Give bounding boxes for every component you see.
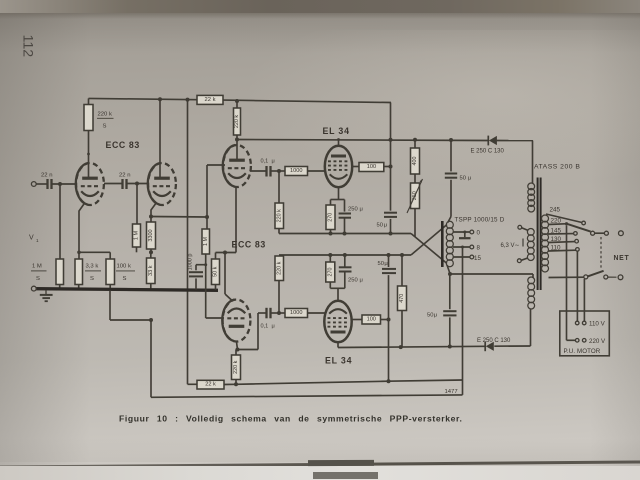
- svg-text:S: S: [36, 276, 40, 282]
- svg-text:33 k: 33 k: [148, 265, 154, 276]
- svg-text:S: S: [123, 276, 127, 282]
- svg-text:250: 250: [348, 207, 358, 213]
- svg-text:220 k: 220 k: [234, 115, 240, 128]
- svg-text:470: 470: [399, 294, 405, 303]
- svg-text:22 n: 22 n: [119, 173, 130, 179]
- svg-text:50: 50: [460, 176, 466, 182]
- svg-text:ECC 83: ECC 83: [232, 240, 266, 250]
- svg-text:22 k: 22 k: [205, 97, 216, 103]
- svg-text:EL 34: EL 34: [323, 126, 350, 136]
- svg-text:220 k: 220 k: [98, 112, 112, 118]
- svg-text:220 k: 220 k: [276, 261, 282, 274]
- svg-text:145: 145: [551, 227, 562, 234]
- svg-text:S: S: [90, 276, 94, 282]
- svg-text:400: 400: [412, 157, 418, 166]
- svg-text:100: 100: [367, 317, 376, 323]
- svg-text:50: 50: [377, 223, 383, 229]
- svg-text:μ: μ: [360, 278, 363, 284]
- svg-text:μ: μ: [434, 313, 437, 319]
- svg-text:1000: 1000: [290, 168, 302, 174]
- svg-text:22 k: 22 k: [205, 382, 216, 388]
- svg-text:130: 130: [551, 236, 562, 243]
- svg-text:μ: μ: [272, 159, 275, 165]
- svg-text:22 n: 22 n: [41, 173, 52, 179]
- svg-text:15: 15: [474, 255, 481, 262]
- svg-text:S: S: [103, 124, 107, 130]
- svg-text:220: 220: [551, 218, 562, 225]
- svg-text:50: 50: [427, 313, 433, 319]
- svg-text:220 k: 220 k: [276, 209, 282, 222]
- svg-text:μ: μ: [468, 176, 471, 182]
- svg-text:NET: NET: [614, 255, 630, 262]
- svg-text:Figuur 10 : Volledig schema: Figuur 10 : Volledig schema van de symme…: [119, 414, 463, 424]
- svg-text:6,3 V∼: 6,3 V∼: [501, 243, 520, 249]
- svg-text:ECC 83: ECC 83: [106, 140, 140, 150]
- svg-text:3300: 3300: [148, 229, 154, 241]
- svg-text:110: 110: [551, 245, 562, 252]
- svg-text:50: 50: [378, 261, 384, 267]
- svg-text:μ: μ: [360, 207, 363, 213]
- svg-text:1477: 1477: [445, 389, 458, 395]
- svg-text:0,1: 0,1: [261, 159, 269, 165]
- svg-text:270: 270: [328, 213, 334, 222]
- svg-text:3,3 k: 3,3 k: [86, 264, 99, 270]
- svg-text:P.U. MOTOR: P.U. MOTOR: [564, 348, 601, 355]
- svg-text:220 V: 220 V: [589, 338, 606, 345]
- svg-text:1000 p: 1000 p: [188, 254, 194, 271]
- svg-text:V: V: [29, 235, 34, 242]
- svg-text:110 V: 110 V: [589, 321, 606, 328]
- svg-text:100 k: 100 k: [117, 264, 131, 270]
- svg-text:0,1: 0,1: [261, 324, 269, 330]
- svg-text:245: 245: [550, 207, 561, 214]
- svg-text:1: 1: [36, 238, 39, 243]
- svg-text:1 M: 1 M: [203, 237, 209, 246]
- svg-text:1000: 1000: [290, 310, 302, 316]
- svg-text:50 k: 50 k: [213, 266, 219, 276]
- svg-text:1 M: 1 M: [32, 264, 42, 270]
- svg-text:1 M: 1 M: [134, 230, 140, 240]
- svg-text:E 250 C 130: E 250 C 130: [477, 338, 511, 344]
- svg-text:0: 0: [477, 230, 481, 237]
- svg-text:EL 34: EL 34: [325, 356, 352, 366]
- svg-text:112: 112: [20, 35, 36, 58]
- svg-text:ATASS 200 B: ATASS 200 B: [534, 164, 580, 171]
- svg-text:250: 250: [348, 278, 358, 284]
- svg-text:100: 100: [367, 164, 376, 170]
- svg-text:μ: μ: [384, 261, 387, 267]
- svg-text:TSPP 1000/15 D: TSPP 1000/15 D: [455, 217, 505, 224]
- svg-text:220 k: 220 k: [233, 360, 239, 373]
- svg-text:E 250 C 130: E 250 C 130: [471, 149, 505, 155]
- svg-text:8: 8: [477, 245, 481, 252]
- svg-text:μ: μ: [384, 223, 387, 229]
- svg-text:μ: μ: [272, 324, 275, 330]
- svg-text:270: 270: [327, 268, 333, 277]
